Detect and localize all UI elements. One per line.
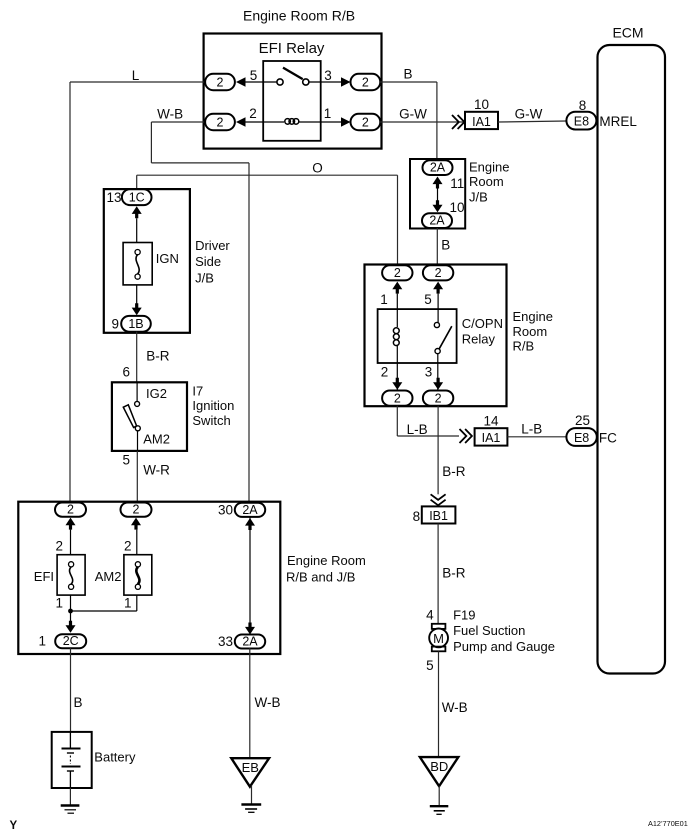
pin number 5	[250, 68, 258, 83]
wire B horizontal	[379, 81, 437, 83]
connector 2A pin 30	[235, 503, 265, 517]
pin number 13	[106, 190, 121, 205]
label W-R	[143, 463, 170, 478]
label W-B (right bottom)	[442, 700, 468, 715]
label L	[132, 68, 140, 83]
wire G-W to IA1	[379, 121, 465, 123]
connector E8 MREL	[566, 112, 596, 130]
pin number 10 above IA1	[474, 97, 489, 112]
EFI relay coil	[263, 119, 321, 125]
svg-text:2: 2	[381, 365, 389, 380]
wire to EFI fuse	[70, 530, 72, 555]
ground triangle EB	[231, 758, 269, 787]
svg-text:Room: Room	[469, 174, 504, 189]
connector IA1 (top)	[465, 112, 498, 129]
svg-text:Engine: Engine	[513, 309, 553, 324]
svg-text:G-W: G-W	[515, 107, 543, 122]
label Driver Side J/B	[195, 238, 230, 286]
pin number 5 (pump)	[426, 658, 434, 673]
svg-text:Driver: Driver	[195, 238, 230, 253]
label Engine Room R/B (title)	[243, 8, 355, 24]
svg-text:B-R: B-R	[442, 464, 466, 479]
svg-text:B-R: B-R	[442, 566, 466, 581]
pin number 1 (EFI fuse)	[55, 596, 63, 611]
pin number 10	[450, 200, 465, 215]
svg-text:2A: 2A	[429, 214, 445, 228]
svg-text:IG2: IG2	[146, 386, 167, 401]
wire fuse junction horizontal	[71, 610, 137, 612]
svg-text:4: 4	[426, 608, 434, 623]
svg-text:IA1: IA1	[472, 115, 491, 129]
label C/OPN Relay	[462, 316, 503, 346]
label AM2 (fuse)	[95, 569, 122, 584]
battery cell symbol	[62, 732, 81, 788]
svg-text:2: 2	[249, 106, 257, 121]
wire B vertical to Engine Room J/B	[436, 82, 438, 161]
wire L-B down	[396, 406, 398, 436]
relay box C/OPN outer (Engine Room R/B)	[365, 265, 507, 407]
fuse AM2	[124, 555, 152, 595]
svg-text:J/B: J/B	[195, 271, 214, 286]
svg-text:10: 10	[474, 97, 489, 112]
svg-text:1: 1	[324, 106, 332, 121]
arrow down into 2C	[66, 621, 76, 633]
pin number 2 (C/OPN)	[381, 365, 389, 380]
wire 1C to IGN fuse	[136, 218, 138, 242]
svg-text:2: 2	[217, 116, 224, 130]
label Y (page marker)	[10, 820, 18, 832]
svg-text:2: 2	[133, 503, 140, 517]
svg-text:2C: 2C	[63, 634, 79, 648]
svg-text:EFI Relay: EFI Relay	[259, 40, 325, 57]
svg-text:B: B	[403, 66, 412, 81]
svg-text:W-B: W-B	[442, 700, 468, 715]
pin number 4 (pump)	[426, 608, 434, 623]
svg-text:E8: E8	[574, 115, 589, 129]
arrow up pin 11	[433, 177, 443, 189]
svg-text:Switch: Switch	[192, 413, 230, 428]
label B-R (lower)	[442, 566, 466, 581]
pin number 30	[218, 503, 233, 518]
wire BD to earth	[438, 786, 440, 806]
ground symbol EB	[241, 805, 261, 813]
connector 2 C-OPN pin 1	[382, 265, 412, 280]
svg-text:1: 1	[380, 292, 388, 307]
arrow into pin (right bottom)	[321, 117, 351, 127]
label EFI Relay	[259, 40, 325, 57]
connector 2C	[55, 634, 86, 648]
wire contact b to inner box edge	[309, 81, 321, 83]
switch contact AM2	[135, 426, 140, 431]
junction block Driver Side J/B box	[104, 189, 190, 333]
arrow into pin (left bottom)	[236, 117, 263, 127]
connector IB1	[422, 506, 456, 523]
svg-text:G-W: G-W	[399, 106, 427, 121]
svg-text:IB1: IB1	[429, 509, 448, 523]
wire contact to pin3	[437, 354, 439, 391]
C/OPN switch lever	[439, 326, 452, 349]
svg-text:W-B: W-B	[255, 695, 281, 710]
connector 2 C-OPN pin 5	[423, 265, 453, 280]
svg-text:2A: 2A	[242, 503, 258, 517]
svg-text:L: L	[132, 68, 140, 83]
label G-W (right)	[515, 107, 543, 122]
pin number 3	[324, 68, 332, 83]
wire L horizontal to EFI relay	[70, 81, 206, 83]
svg-text:Ignition: Ignition	[192, 398, 234, 413]
svg-text:5: 5	[426, 658, 434, 673]
svg-text:2A: 2A	[242, 634, 258, 648]
junction dot	[68, 609, 73, 614]
svg-text:IA1: IA1	[482, 431, 501, 445]
EFI relay inner box	[263, 61, 321, 141]
connector 2 (EFI fuse feed)	[55, 503, 86, 517]
svg-text:Fuel Suction: Fuel Suction	[453, 623, 525, 638]
svg-text:1: 1	[38, 634, 46, 649]
label L-B (right)	[521, 422, 542, 437]
junction block Engine Room R/B and J/B box	[18, 502, 280, 654]
svg-text:BD: BD	[430, 759, 448, 774]
svg-text:1: 1	[124, 596, 132, 611]
wire B-R below IB1	[437, 524, 439, 625]
svg-text:8: 8	[413, 509, 421, 524]
connector 2 C-OPN pin 3	[423, 391, 453, 406]
arrow down into 2A pin 33	[245, 623, 255, 635]
svg-text:W-R: W-R	[143, 463, 170, 478]
svg-text:R/B: R/B	[513, 339, 535, 354]
wire to AM2 fuse	[136, 530, 138, 555]
label IGN	[156, 251, 179, 266]
svg-text:2: 2	[217, 76, 224, 90]
arrow down pin 10	[433, 200, 443, 212]
wire L-B horizontal	[397, 435, 459, 437]
pin number 11	[450, 176, 464, 191]
EFI relay switch lever	[283, 68, 303, 80]
svg-text:10: 10	[450, 200, 465, 215]
junction chevrons into IA1 (lower)	[460, 429, 472, 443]
arrow up into 1C	[132, 206, 142, 218]
wire battery to earth	[69, 788, 71, 806]
svg-text:33: 33	[218, 634, 233, 649]
svg-text:J/B: J/B	[469, 189, 488, 204]
wire W-B vertical	[150, 122, 152, 163]
svg-text:B: B	[74, 695, 83, 710]
label G-W (left)	[399, 106, 427, 121]
arrow into pin (right top)	[321, 77, 351, 87]
svg-text:O: O	[312, 161, 323, 176]
svg-text:Engine Room: Engine Room	[287, 553, 366, 568]
pin number 5 (switch)	[122, 452, 130, 467]
wire junction to 2C	[70, 611, 72, 622]
svg-text:30: 30	[218, 503, 233, 518]
wire O horizontal	[137, 174, 398, 176]
svg-text:1: 1	[55, 596, 63, 611]
svg-text:Battery: Battery	[94, 750, 136, 765]
svg-text:5: 5	[424, 292, 432, 307]
switch box I7 Ignition Switch	[112, 382, 187, 451]
svg-text:A12’770E01: A12’770E01	[648, 819, 688, 828]
junction chevrons into IA1	[452, 115, 464, 129]
svg-text:25: 25	[575, 413, 590, 428]
pin number 2	[249, 106, 257, 121]
label W-B (top)	[157, 107, 183, 122]
arrow up pin 1	[392, 282, 402, 294]
arrow down into 1B	[132, 303, 142, 315]
arrow up pin 5	[433, 282, 443, 294]
connector E8 FC	[566, 428, 596, 446]
wire switch to J/B	[136, 451, 138, 503]
wire EFI fuse down	[70, 595, 72, 611]
junction block Engine Room J/B box	[410, 159, 465, 229]
wire pin5 to contact	[437, 294, 439, 323]
label B-R (middle)	[442, 464, 466, 479]
pin number 9	[111, 317, 119, 332]
label figure number A12'770E01	[648, 819, 688, 828]
fuse EFI	[57, 555, 85, 595]
pin number 2 (EFI fuse)	[55, 539, 63, 554]
motor M fuel pump	[429, 624, 448, 652]
arrow down pin 2	[392, 378, 402, 390]
svg-text:14: 14	[483, 414, 499, 429]
svg-text:EB: EB	[242, 760, 259, 775]
pin number 1 (C/OPN)	[380, 292, 388, 307]
ground triangle BD	[420, 757, 458, 786]
wire 1B to ignition switch	[136, 332, 138, 383]
connector 2A pin 33	[235, 634, 265, 648]
svg-text:Relay: Relay	[462, 332, 496, 347]
arrow into pin (left top)	[236, 77, 263, 87]
EFI relay switch contact a	[277, 79, 283, 85]
label L-B (left)	[407, 422, 428, 437]
svg-text:IGN: IGN	[156, 251, 179, 266]
wire between 2A pins	[437, 189, 439, 201]
svg-text:Engine Room R/B: Engine Room R/B	[243, 8, 355, 24]
pin number 8 (IB1)	[413, 509, 421, 524]
pin number 5 (C/OPN)	[424, 292, 432, 307]
svg-text:11: 11	[450, 176, 464, 191]
svg-text:M: M	[433, 631, 444, 646]
svg-text:2: 2	[362, 116, 369, 130]
svg-text:2: 2	[55, 539, 63, 554]
pin number 1 (AM2 fuse)	[124, 596, 132, 611]
label Battery	[94, 750, 136, 765]
label Engine Room R/B and J/B	[286, 553, 366, 584]
EFI relay switch contact b	[303, 79, 309, 85]
label B (top)	[403, 66, 412, 81]
svg-text:Side: Side	[195, 254, 221, 269]
svg-text:9: 9	[111, 317, 119, 332]
svg-text:R/B and J/B: R/B and J/B	[286, 569, 355, 584]
svg-text:2: 2	[124, 539, 132, 554]
label Engine Room R/B (right)	[513, 309, 553, 353]
connector 2 EFI relay pin (right top)	[351, 74, 381, 90]
pin number 2 (AM2 fuse)	[124, 539, 132, 554]
label EFI (fuse)	[34, 569, 54, 584]
wire O up from 1C	[136, 175, 138, 189]
wire into IG2 contact	[136, 382, 138, 401]
wire AM2 fuse down	[136, 595, 138, 611]
svg-text:2: 2	[362, 76, 369, 90]
connector 2 EFI relay pin (right bottom)	[351, 114, 381, 130]
pin number 1	[324, 106, 332, 121]
battery box	[52, 732, 92, 788]
connector 2A (top)	[423, 160, 453, 175]
wire G-W to ECM	[498, 121, 566, 122]
svg-text:Engine: Engine	[469, 159, 509, 174]
svg-text:2: 2	[67, 503, 74, 517]
connector 2 EFI relay pin (left bottom)	[205, 114, 235, 130]
label Fuel Suction Pump and Gauge	[453, 623, 555, 654]
svg-text:Y: Y	[10, 820, 18, 832]
svg-text:2: 2	[394, 391, 401, 405]
wire O down to C-OPN relay	[397, 175, 399, 265]
svg-text:L-B: L-B	[407, 422, 428, 437]
connector 2 C-OPN pin 2	[382, 391, 412, 406]
label B (battery)	[74, 695, 83, 710]
svg-text:2: 2	[435, 391, 442, 405]
label ECM	[612, 25, 643, 41]
pin number 8 above E8	[579, 98, 587, 113]
wire W-B long vertical	[248, 163, 250, 503]
label I7 Ignition Switch	[192, 383, 234, 428]
svg-text:EFI: EFI	[34, 569, 54, 584]
switch contact IG2	[135, 401, 140, 406]
label FC	[599, 430, 617, 445]
C/OPN relay coil	[393, 328, 399, 346]
svg-text:3: 3	[324, 68, 332, 83]
ECM box	[598, 45, 666, 674]
svg-text:2A: 2A	[430, 161, 446, 175]
svg-text:B-R: B-R	[146, 349, 170, 364]
wire inner to contact	[263, 81, 277, 83]
label W-B (left bottom)	[255, 695, 281, 710]
wire B to C-OPN relay	[436, 228, 438, 265]
svg-text:6: 6	[122, 365, 130, 380]
connector IA1 (lower)	[475, 428, 508, 445]
svg-text:5: 5	[250, 68, 258, 83]
C/OPN inner box	[378, 309, 457, 363]
svg-text:W-B: W-B	[157, 107, 183, 122]
connector 1B	[121, 316, 151, 332]
label B-R (upper)	[146, 349, 170, 364]
svg-text:Room: Room	[513, 324, 548, 339]
svg-text:1B: 1B	[128, 317, 143, 331]
ground symbol battery	[61, 806, 80, 814]
connector 1C	[122, 189, 152, 205]
svg-text:1C: 1C	[129, 191, 145, 205]
label O	[312, 161, 323, 176]
wire W-B to EB ground	[249, 648, 251, 757]
wire L vertical left rail	[69, 82, 71, 503]
label AM2 (switch)	[143, 431, 170, 446]
wire 30 to 33	[249, 517, 251, 623]
wire W-B horizontal jog	[151, 162, 249, 164]
svg-text:13: 13	[106, 190, 121, 205]
junction chevrons into IB1	[431, 494, 446, 505]
arrow up into 2 (EFI)	[66, 518, 76, 530]
svg-text:AM2: AM2	[143, 431, 170, 446]
svg-text:E8: E8	[574, 431, 589, 445]
svg-text:5: 5	[122, 452, 130, 467]
connector 2A (bottom)	[422, 213, 452, 228]
connector 2 EFI relay pin (left top)	[205, 74, 235, 90]
pin number 1 (2C)	[38, 634, 46, 649]
pin number 14	[483, 414, 499, 429]
wire IGN fuse to 1B	[136, 285, 138, 304]
svg-text:B: B	[441, 238, 450, 253]
wire coil to pin2	[396, 345, 398, 391]
svg-text:MREL: MREL	[599, 114, 637, 129]
connector 2 (AM2 fuse feed)	[121, 503, 152, 517]
wire B to battery	[70, 648, 72, 732]
relay box Engine Room R/B outer	[204, 34, 382, 149]
switch lever wedge	[123, 405, 136, 428]
svg-text:Pump and Gauge: Pump and Gauge	[453, 639, 555, 654]
label F19	[453, 608, 475, 623]
wire W-B from pin	[151, 121, 206, 123]
wire EB to earth	[251, 785, 253, 804]
label Engine Room J/B	[469, 159, 509, 204]
wire B-R down from pin 3	[437, 406, 439, 495]
pin number 6	[122, 365, 130, 380]
C/OPN switch contact top	[434, 322, 439, 327]
wire W-B to BD ground	[438, 651, 440, 757]
svg-text:AM2: AM2	[95, 569, 122, 584]
label MREL	[599, 114, 637, 129]
wire L-B to ECM	[507, 436, 566, 438]
arrow down pin 3	[433, 378, 443, 390]
svg-text:3: 3	[425, 365, 433, 380]
label IG2	[146, 386, 167, 401]
pin number 25	[575, 413, 590, 428]
svg-text:2: 2	[394, 266, 401, 280]
arrow up into 2 (AM2)	[131, 518, 141, 530]
wire AM2 contact down	[137, 431, 139, 451]
svg-text:C/OPN: C/OPN	[462, 316, 503, 331]
svg-text:L-B: L-B	[521, 422, 542, 437]
svg-text:ECM: ECM	[612, 25, 643, 41]
C/OPN switch contact bottom	[435, 349, 440, 354]
pin number 33	[218, 634, 233, 649]
svg-text:I7: I7	[192, 383, 203, 398]
ground symbol BD	[430, 806, 449, 814]
svg-text:F19: F19	[453, 608, 475, 623]
wire pin1 to coil	[396, 294, 398, 327]
fuse IGN	[123, 243, 152, 285]
pin number 3 (C/OPN)	[425, 365, 433, 380]
arrow up into 2A pin 30	[245, 518, 255, 530]
svg-text:FC: FC	[599, 430, 617, 445]
svg-text:2: 2	[435, 266, 442, 280]
label B (middle)	[441, 238, 450, 253]
